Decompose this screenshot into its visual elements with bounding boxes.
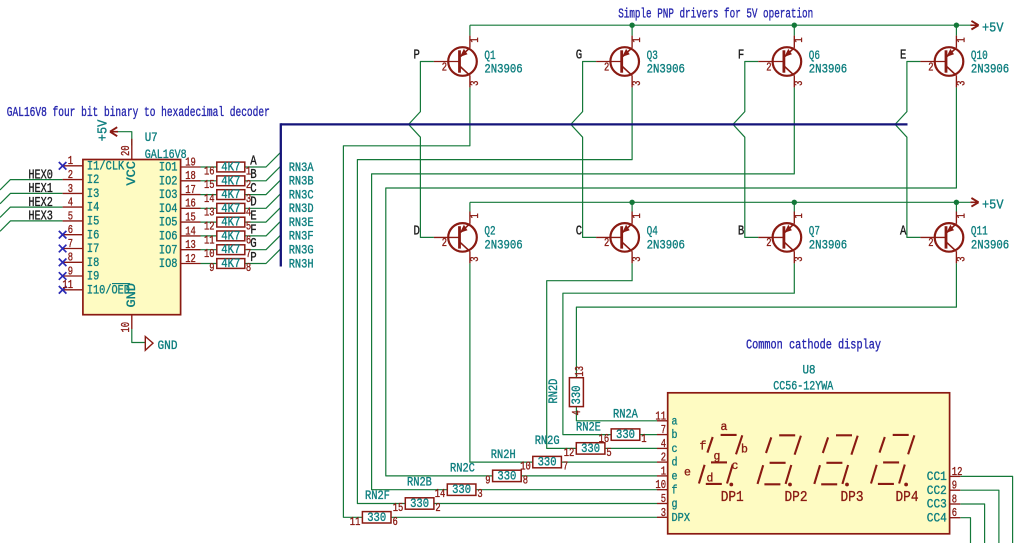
svg-text:I1/CLK: I1/CLK: [87, 159, 125, 173]
svg-text:5: 5: [606, 446, 611, 460]
svg-text:IO4: IO4: [159, 202, 178, 216]
svg-text:12: 12: [952, 465, 963, 479]
svg-text:g: g: [714, 450, 721, 463]
svg-text:B: B: [738, 224, 744, 240]
svg-text:Simple PNP drivers for 5V oper: Simple PNP drivers for 5V operation: [618, 8, 813, 23]
svg-text:c: c: [732, 460, 739, 473]
svg-text:RN2H: RN2H: [491, 448, 516, 462]
svg-text:12: 12: [185, 252, 196, 266]
svg-text:2: 2: [435, 501, 440, 515]
svg-text:Q11: Q11: [971, 224, 988, 239]
svg-text:8: 8: [68, 251, 73, 265]
svg-text:6: 6: [68, 223, 73, 237]
svg-text:9: 9: [68, 264, 73, 278]
svg-text:3: 3: [468, 257, 482, 262]
svg-text:6: 6: [952, 506, 957, 520]
svg-text:G: G: [576, 48, 582, 64]
svg-text:2: 2: [766, 236, 771, 250]
svg-text:e: e: [684, 467, 691, 480]
svg-text:P: P: [250, 250, 256, 266]
svg-text:Q7: Q7: [809, 224, 820, 239]
svg-text:f: f: [672, 483, 678, 497]
svg-text:330: 330: [616, 428, 635, 442]
svg-text:330: 330: [410, 497, 429, 511]
svg-text:Common cathode display: Common cathode display: [746, 339, 881, 354]
svg-text:I4: I4: [87, 201, 99, 215]
svg-text:4K7: 4K7: [221, 229, 240, 243]
svg-text:CC3: CC3: [927, 498, 947, 512]
svg-text:9: 9: [952, 479, 957, 493]
svg-text:5: 5: [68, 209, 73, 223]
svg-text:CC56-12YWA: CC56-12YWA: [773, 380, 833, 394]
svg-text:330: 330: [452, 483, 471, 497]
svg-text:4: 4: [570, 410, 584, 415]
svg-text:Q1: Q1: [484, 48, 495, 63]
svg-text:4K7: 4K7: [221, 174, 240, 188]
svg-text:16: 16: [204, 164, 215, 178]
svg-text:2N3906: 2N3906: [809, 62, 847, 77]
svg-text:1: 1: [630, 213, 644, 218]
svg-text:15: 15: [185, 211, 196, 225]
svg-text:10: 10: [204, 247, 215, 261]
svg-text:1: 1: [630, 37, 644, 42]
svg-text:Q6: Q6: [809, 48, 820, 63]
svg-text:RN2D: RN2D: [547, 379, 561, 404]
svg-text:IO5: IO5: [159, 216, 178, 230]
svg-text:d: d: [672, 456, 678, 470]
svg-text:2N3906: 2N3906: [647, 62, 685, 77]
svg-text:CC1: CC1: [927, 470, 947, 484]
svg-text:2: 2: [928, 60, 933, 74]
svg-text:3: 3: [630, 257, 644, 262]
svg-text:HEX3: HEX3: [28, 210, 53, 225]
svg-text:19: 19: [185, 155, 196, 169]
svg-text:+5V: +5V: [982, 20, 1004, 36]
svg-text:2: 2: [604, 236, 609, 250]
svg-text:g: g: [672, 497, 678, 511]
svg-text:IO3: IO3: [159, 188, 178, 202]
svg-text:RN2C: RN2C: [450, 462, 475, 476]
svg-text:3: 3: [68, 182, 73, 196]
svg-text:IO2: IO2: [159, 174, 178, 188]
svg-text:I8: I8: [87, 256, 99, 270]
svg-text:F: F: [738, 48, 744, 64]
svg-text:2: 2: [604, 60, 609, 74]
svg-text:RN3H: RN3H: [289, 257, 314, 271]
svg-text:3: 3: [792, 81, 806, 86]
svg-text:2: 2: [68, 168, 73, 182]
svg-text:e: e: [672, 470, 678, 484]
svg-text:13: 13: [573, 366, 587, 377]
svg-text:2N3906: 2N3906: [647, 238, 685, 253]
svg-text:d: d: [707, 472, 714, 485]
svg-text:RN2E: RN2E: [576, 420, 601, 434]
svg-text:14: 14: [185, 224, 196, 238]
svg-text:a: a: [721, 421, 728, 434]
svg-text:4K7: 4K7: [221, 161, 240, 175]
svg-text:15: 15: [393, 501, 404, 515]
svg-text:CC4: CC4: [927, 511, 947, 525]
svg-text:4K7: 4K7: [221, 243, 240, 257]
svg-text:7: 7: [563, 460, 568, 474]
svg-text:DP1: DP1: [721, 490, 744, 506]
svg-text:I3: I3: [87, 187, 99, 201]
svg-text:I7: I7: [87, 242, 99, 256]
svg-text:RN3C: RN3C: [289, 188, 314, 202]
svg-text:11: 11: [655, 409, 666, 423]
svg-text:14: 14: [204, 192, 215, 206]
svg-text:GND: GND: [125, 283, 139, 308]
svg-text:3: 3: [630, 81, 644, 86]
svg-text:C: C: [576, 224, 582, 240]
svg-text:13: 13: [204, 206, 215, 220]
svg-text:3: 3: [661, 506, 666, 520]
svg-text:10: 10: [655, 478, 666, 492]
svg-text:1: 1: [792, 37, 806, 42]
svg-text:1: 1: [954, 37, 968, 42]
svg-text:8: 8: [952, 493, 957, 507]
svg-text:b: b: [741, 444, 748, 457]
svg-text:4: 4: [68, 196, 73, 210]
svg-text:17: 17: [185, 183, 196, 197]
svg-text:11: 11: [62, 278, 73, 292]
svg-text:1: 1: [641, 432, 646, 446]
svg-text:2: 2: [928, 236, 933, 250]
svg-text:2N3906: 2N3906: [971, 62, 1009, 77]
svg-text:7: 7: [68, 237, 73, 251]
svg-text:9: 9: [485, 473, 490, 487]
svg-text:3: 3: [954, 257, 968, 262]
svg-text:A: A: [900, 224, 907, 240]
svg-text:RN3F: RN3F: [289, 230, 314, 244]
svg-text:RN3G: RN3G: [289, 244, 314, 258]
svg-text:18: 18: [185, 169, 196, 183]
svg-text:4: 4: [661, 437, 666, 451]
svg-text:12: 12: [564, 446, 575, 460]
svg-text:IO1: IO1: [159, 161, 178, 175]
svg-text:12: 12: [204, 220, 215, 234]
svg-text:I10/OED: I10/OED: [87, 283, 130, 297]
svg-text:f: f: [700, 441, 707, 454]
svg-text:RN3D: RN3D: [289, 202, 314, 216]
svg-text:DP4: DP4: [896, 490, 919, 506]
svg-text:2N3906: 2N3906: [971, 238, 1009, 253]
svg-text:+5V: +5V: [95, 119, 111, 141]
svg-text:330: 330: [367, 511, 386, 525]
svg-text:+5V: +5V: [982, 198, 1004, 214]
svg-text:I5: I5: [87, 215, 99, 229]
svg-text:Q3: Q3: [647, 48, 658, 63]
svg-text:Q4: Q4: [647, 224, 658, 239]
svg-text:IO6: IO6: [159, 230, 178, 244]
svg-text:IO7: IO7: [159, 243, 178, 257]
svg-text:1: 1: [792, 213, 806, 218]
svg-text:2: 2: [442, 60, 447, 74]
svg-text:7: 7: [661, 423, 666, 437]
svg-text:I2: I2: [87, 173, 99, 187]
svg-text:RN2A: RN2A: [613, 408, 638, 422]
svg-text:b: b: [672, 428, 678, 442]
svg-text:1: 1: [68, 154, 73, 168]
svg-text:U8: U8: [803, 364, 816, 378]
svg-text:I9: I9: [87, 270, 99, 284]
svg-text:9: 9: [209, 261, 214, 275]
svg-text:IO8: IO8: [159, 257, 178, 271]
svg-text:P: P: [414, 48, 420, 64]
svg-text:10: 10: [119, 322, 133, 333]
svg-text:RN3E: RN3E: [289, 216, 314, 230]
svg-text:1: 1: [468, 213, 482, 218]
svg-text:I6: I6: [87, 228, 99, 242]
svg-text:DP2: DP2: [785, 490, 808, 506]
svg-text:D: D: [414, 224, 420, 240]
svg-text:RN2B: RN2B: [407, 475, 432, 489]
svg-text:5: 5: [661, 492, 666, 506]
svg-text:4K7: 4K7: [221, 216, 240, 230]
svg-text:a: a: [672, 414, 678, 428]
svg-text:RN2F: RN2F: [365, 489, 390, 503]
svg-text:3: 3: [954, 81, 968, 86]
svg-text:Q10: Q10: [971, 48, 988, 63]
svg-text:2N3906: 2N3906: [484, 238, 522, 253]
svg-text:2N3906: 2N3906: [484, 62, 522, 77]
svg-text:330: 330: [581, 442, 600, 456]
svg-text:2N3906: 2N3906: [809, 238, 847, 253]
svg-text:RN2G: RN2G: [535, 434, 560, 448]
svg-text:11: 11: [350, 515, 361, 529]
svg-text:2: 2: [661, 451, 666, 465]
svg-text:RN3B: RN3B: [289, 175, 314, 189]
svg-text:15: 15: [204, 178, 215, 192]
svg-text:Q2: Q2: [484, 224, 495, 239]
svg-text:16: 16: [185, 197, 196, 211]
svg-text:DP3: DP3: [841, 490, 864, 506]
svg-text:GAL16V8 four bit binary to hex: GAL16V8 four bit binary to hexadecimal d…: [7, 106, 270, 121]
svg-text:RN3A: RN3A: [289, 161, 314, 175]
svg-text:2: 2: [442, 236, 447, 250]
svg-text:3: 3: [792, 257, 806, 262]
svg-text:c: c: [672, 442, 678, 456]
svg-text:3: 3: [468, 81, 482, 86]
svg-text:VCC: VCC: [125, 161, 139, 186]
svg-text:1: 1: [661, 464, 666, 478]
svg-text:330: 330: [538, 456, 557, 470]
svg-text:14: 14: [435, 487, 446, 501]
svg-text:GND: GND: [158, 339, 178, 353]
svg-text:13: 13: [185, 238, 196, 252]
svg-text:CC2: CC2: [927, 484, 947, 498]
svg-text:330: 330: [570, 386, 584, 405]
svg-text:10: 10: [520, 460, 531, 474]
svg-text:DPX: DPX: [672, 511, 691, 525]
svg-text:2: 2: [766, 60, 771, 74]
svg-text:8: 8: [523, 473, 528, 487]
svg-text:4K7: 4K7: [221, 188, 240, 202]
svg-text:330: 330: [497, 469, 516, 483]
svg-text:4K7: 4K7: [221, 202, 240, 216]
svg-text:U7: U7: [145, 131, 158, 145]
svg-text:E: E: [900, 48, 906, 64]
svg-text:4K7: 4K7: [221, 257, 240, 271]
svg-text:20: 20: [119, 145, 133, 156]
svg-text:1: 1: [468, 37, 482, 42]
svg-text:HEX2: HEX2: [28, 196, 53, 211]
svg-text:6: 6: [393, 515, 398, 529]
svg-text:1: 1: [954, 213, 968, 218]
svg-text:HEX0: HEX0: [28, 168, 53, 183]
svg-text:3: 3: [477, 487, 482, 501]
svg-text:11: 11: [204, 233, 215, 247]
